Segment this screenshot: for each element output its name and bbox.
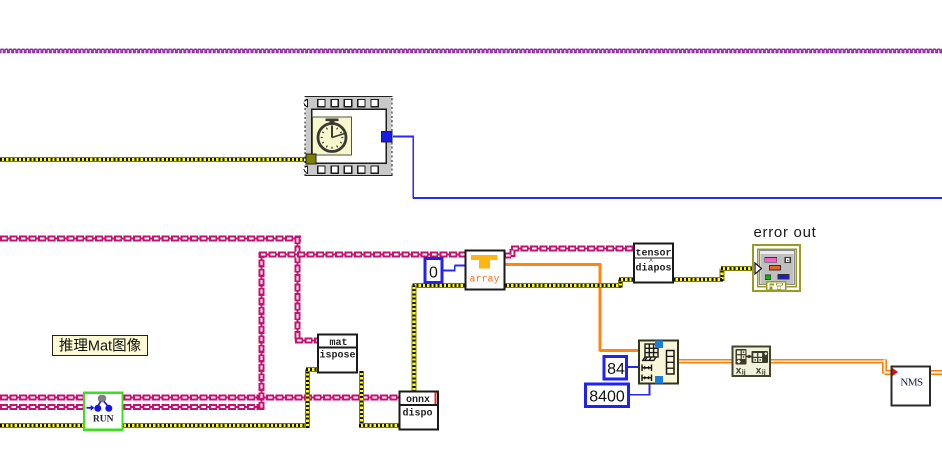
svg-text:ispose: ispose [319, 350, 355, 362]
tunnel: olive error tunnel on sequence left border [306, 154, 316, 164]
node: reshape array [639, 341, 678, 384]
svg-text:^: ^ [649, 258, 653, 267]
svg-text:84: 84 [607, 361, 625, 378]
wire: blue from 84 to reshape [627, 366, 639, 368]
wire: pink chain W1 stub into mat node [295, 338, 319, 344]
svg-text:mat: mat [329, 338, 347, 349]
wire: error cluster up x=307 and stub into mat [306, 370, 319, 429]
wire: error cluster mat down to onnx [359, 371, 400, 426]
wire: orange 2D double from reshape to x_ij to NMS and out [678, 360, 942, 374]
node: NMS subVI [892, 367, 931, 406]
node: RUN subVI [84, 393, 123, 430]
wire: purple squiggle net across top [0, 48, 942, 55]
wire: pink chain W3 horizontal lower [0, 404, 264, 410]
wire: pink chain W1 vertical down [295, 236, 301, 341]
wire: error cluster bottom run x0->307 [0, 423, 310, 428]
tunnel: blue numeric tunnel on sequence right border [382, 132, 393, 143]
wire: error cluster step up into tensor and onward [619, 269, 754, 288]
wire: orange 1D from T array down to reshape [504, 263, 639, 351]
svg-text:0: 0 [429, 265, 438, 282]
wire: blue from 8400 to reshape bottom [629, 384, 650, 396]
svg-text:8400: 8400 [589, 389, 625, 406]
svg-text:tensor: tensor [635, 249, 671, 260]
sequence structure (film strip frame) [304, 97, 392, 176]
node: T array (transpose) [466, 251, 505, 290]
wire: blue from 0 constant to T array [442, 266, 466, 272]
constant: 0 [425, 259, 442, 283]
label: 推理Mat图像 [53, 336, 148, 356]
wire: blue numeric from sequence tunnel down and right [352, 136, 942, 199]
svg-text:onnx: onnx [406, 395, 430, 406]
svg-text:error out: error out [754, 224, 817, 241]
constant: 84 [604, 357, 627, 380]
svg-text:推理Mat图像: 推理Mat图像 [59, 338, 142, 355]
wire: pink chain W3 horizontal to T array node [259, 252, 466, 258]
wire: pink chain from T array up-step to tensor node [504, 249, 635, 258]
svg-text:diapos: diapos [635, 263, 671, 275]
constant: 8400 [586, 384, 629, 407]
svg-text:ij: ij [762, 370, 766, 377]
wire: error cluster into sequence (left) [0, 157, 308, 162]
indicator: error out [753, 224, 817, 291]
node: x_ij index/in-place element [733, 347, 771, 377]
node: mat ispose subVI [318, 335, 357, 373]
svg-text:dispo: dispo [402, 408, 432, 420]
wire: pink chain W2 horizontal into onnx [0, 395, 400, 401]
node: Wait(ms) clock icon inside sequence [313, 117, 352, 155]
node: onnx dispo subVI [400, 392, 439, 430]
svg-text:RUN: RUN [93, 415, 114, 425]
wire: pink chain W1 horizontal top [0, 236, 301, 242]
wire: pink chain W3 vertical up [259, 252, 265, 410]
svg-text:NMS: NMS [900, 377, 923, 389]
svg-text:ij: ij [742, 370, 746, 377]
svg-text:array: array [469, 275, 499, 286]
wire: error cluster onnx up to T array level [413, 286, 622, 393]
node: tensor diapos subVI [634, 244, 673, 283]
